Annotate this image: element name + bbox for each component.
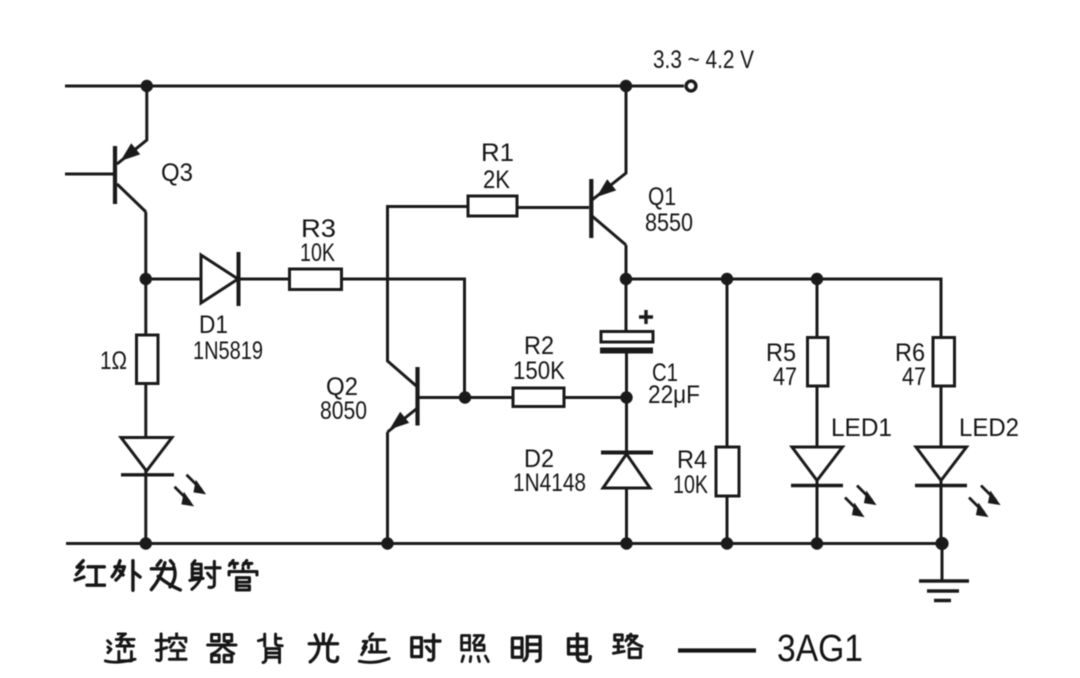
svg-text:1N5819: 1N5819 (193, 337, 263, 365)
resistor R6 (933, 338, 955, 387)
node bottom rail Q2 emitter (381, 537, 393, 549)
svg-text:8550: 8550 (645, 209, 693, 237)
wire 1-ohm resistor branch (144, 279, 147, 336)
svg-text:Q3: Q3 (161, 159, 193, 187)
wire D2 through (625, 398, 628, 544)
text infrared-emitter caption 红外发射管 (75, 560, 257, 590)
wire R3 to corner (342, 279, 465, 397)
node Q2 base / R3 branch (459, 391, 471, 403)
svg-text:3.3 ~ 4.2 V: 3.3 ~ 4.2 V (653, 46, 754, 74)
wire R2 to node (564, 396, 627, 399)
wire C1 bottom to node (625, 354, 628, 398)
svg-text:47: 47 (902, 363, 926, 391)
LED LED1 (791, 447, 877, 517)
wire C1 top (625, 279, 628, 332)
node bottom rail D2 (620, 537, 632, 549)
resistor R5 (808, 338, 829, 387)
node D1 junction (140, 273, 152, 285)
wire Q3 base (65, 173, 113, 176)
wire R5 top (816, 279, 819, 339)
svg-text:10K: 10K (300, 239, 335, 267)
svg-text:8050: 8050 (320, 397, 367, 425)
svg-text:22μF: 22μF (648, 381, 700, 409)
wire Q1 collector down (625, 245, 628, 279)
svg-text:LED2: LED2 (959, 414, 1019, 442)
LED infrared emitter (121, 438, 206, 507)
wire Q2 base to R2 (418, 396, 514, 399)
diode D1 (201, 252, 239, 306)
caption dash (678, 648, 756, 652)
power terminal circle (686, 81, 696, 91)
resistor R2 (513, 388, 564, 407)
resistor R1 (468, 196, 517, 216)
resistor R4 (716, 447, 739, 496)
svg-text:D1: D1 (199, 311, 228, 339)
resistor R3 (290, 269, 342, 290)
ground (919, 544, 969, 601)
transistor Q1 (591, 179, 626, 245)
LED LED2 (915, 447, 1001, 517)
node bottom rail LED2 / ground (935, 537, 948, 550)
wire R6 to LED2 to rail (940, 386, 943, 544)
node top rail / Q1 emitter (620, 80, 632, 92)
wire Q3 emitter to rail (117, 86, 147, 164)
text title 遥控器背光延时照明电路 (105, 633, 642, 662)
wire mid rail (626, 279, 941, 339)
wire R1 to Q1 base (517, 206, 589, 209)
svg-text:R1: R1 (481, 139, 514, 167)
node bottom rail IR LED (140, 537, 152, 549)
capacitor C1 (600, 310, 653, 354)
wire Q2 emitter down (386, 432, 389, 544)
wire top power rail (65, 85, 684, 88)
svg-text:R2: R2 (524, 332, 554, 360)
wire node to D1 (146, 278, 201, 281)
node top rail / Q3 emitter (141, 80, 153, 92)
svg-text:1N4148: 1N4148 (513, 469, 586, 497)
node C1 / R2 / D2 (620, 391, 632, 403)
wire D1 to R3 (239, 278, 290, 281)
wire R5 to LED1 to rail (816, 386, 819, 544)
transistor Q3 (115, 143, 146, 212)
node Q1 collector rail (620, 273, 632, 285)
wire to IR LED to rail (144, 382, 147, 544)
node bottom rail LED1 (811, 537, 823, 549)
transistor Q2 (388, 367, 418, 432)
svg-text:47: 47 (773, 363, 797, 391)
wire R1 left / Q2 collector (388, 207, 469, 388)
svg-text:150K: 150K (513, 357, 565, 385)
wire R4 top (726, 279, 729, 447)
diode D2 (601, 453, 653, 489)
node R5 top (811, 273, 823, 285)
svg-text:LED1: LED1 (831, 414, 892, 442)
svg-text:2K: 2K (483, 166, 510, 194)
svg-text:10K: 10K (673, 471, 708, 499)
svg-text:R4: R4 (677, 446, 707, 474)
svg-text:3AG1: 3AG1 (777, 628, 863, 670)
wire bottom rail (66, 542, 942, 545)
resistor 1-ohm (137, 335, 159, 384)
node R4 top (721, 273, 733, 285)
wire R4 bottom (726, 496, 729, 544)
node bottom rail R4 (721, 537, 733, 549)
svg-text:1Ω: 1Ω (100, 347, 127, 375)
svg-text:Q1: Q1 (648, 183, 676, 211)
wire Q3 emitter down (144, 212, 147, 279)
wire Q1 emitter to rail (592, 86, 626, 200)
